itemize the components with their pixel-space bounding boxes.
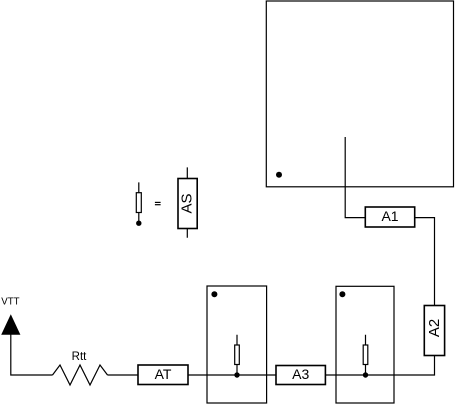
chip block U1 bbox=[266, 1, 453, 187]
legend sample resistor body bbox=[136, 193, 141, 213]
VTT power arrow bbox=[1, 314, 20, 335]
termination block box B1 bbox=[207, 286, 267, 403]
resistor leads inside box B1 bbox=[236, 335, 238, 375]
block A2 (vertical) bbox=[424, 306, 444, 356]
svg-text:Rtt: Rtt bbox=[72, 351, 88, 363]
equals sign bbox=[155, 202, 161, 203]
junction dot in box B2 bbox=[363, 372, 368, 377]
pin-1 dot in box B2 bbox=[339, 291, 345, 297]
svg-text:VTT: VTT bbox=[1, 296, 19, 307]
svg-text:AT: AT bbox=[155, 366, 172, 382]
resistor leads inside box B2 bbox=[365, 335, 367, 375]
block A3 bbox=[276, 366, 325, 385]
svg-text:A3: A3 bbox=[292, 366, 309, 382]
resistor body inside box B2 bbox=[363, 345, 368, 365]
pin-1 dot inside chip U1 bbox=[276, 172, 282, 178]
pin-1 dot in box B1 bbox=[211, 291, 217, 297]
wire: A1 right to A2 and bottom net bbox=[108, 218, 435, 375]
svg-text:A1: A1 bbox=[381, 208, 398, 224]
legend sample resistor dot bbox=[136, 221, 141, 226]
block AT bbox=[138, 365, 188, 385]
resistor body inside box B1 bbox=[235, 345, 240, 365]
svg-text:AS: AS bbox=[179, 193, 196, 213]
legend sample resistor leads bbox=[138, 182, 140, 221]
wire: VTT stem to Rtt bbox=[11, 335, 53, 376]
svg-text:A2: A2 bbox=[426, 319, 443, 337]
termination block box B2 bbox=[336, 286, 394, 403]
resistor Rtt zigzag bbox=[53, 365, 108, 385]
block A1 bbox=[365, 207, 414, 227]
junction dot in box B1 bbox=[234, 372, 239, 377]
wire: chip internal stub down to A1 bbox=[345, 137, 365, 218]
legend block AS leads bbox=[186, 167, 188, 237]
legend block AS bbox=[178, 179, 197, 229]
